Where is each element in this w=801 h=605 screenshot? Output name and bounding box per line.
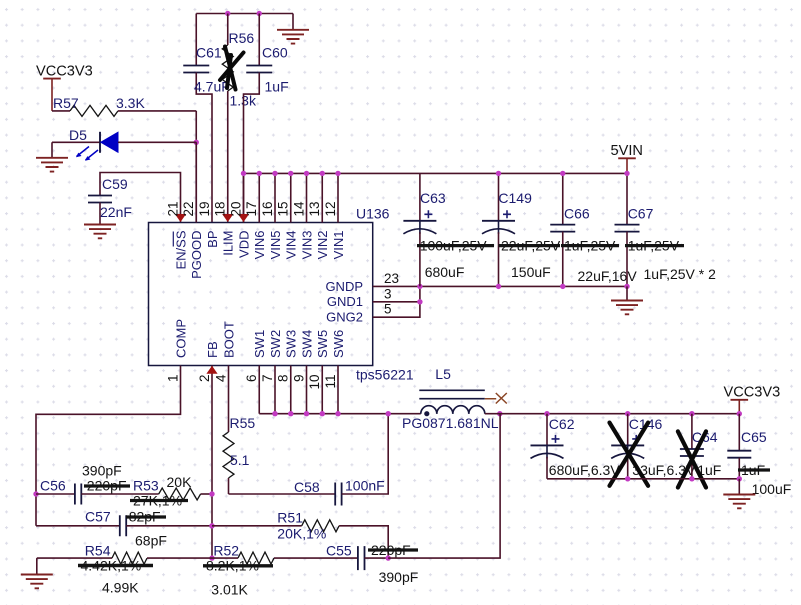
svg-text:20K: 20K xyxy=(167,474,193,490)
power symbol VCC3V3 (output) xyxy=(724,385,781,414)
wire D5 cathode to ground xyxy=(51,142,53,158)
svg-text:VIN1: VIN1 xyxy=(331,231,346,260)
strikethrough on C63 old value xyxy=(417,244,494,247)
strikethrough on C67 old value xyxy=(625,244,684,247)
svg-text:3.3K: 3.3K xyxy=(116,95,145,111)
svg-text:C58: C58 xyxy=(294,479,320,495)
svg-text:C60: C60 xyxy=(262,45,288,61)
junction C60 top xyxy=(257,11,262,16)
pin numbers right side xyxy=(384,271,399,317)
svg-text:R54: R54 xyxy=(85,543,111,559)
svg-text:22nF: 22nF xyxy=(100,204,132,220)
svg-text:19: 19 xyxy=(197,201,212,216)
junction GNDP/C63 bottom xyxy=(417,284,422,289)
ground under C67 xyxy=(611,301,643,315)
cross-out X over C64 xyxy=(678,431,706,487)
cross-out X over R56 xyxy=(220,47,244,90)
svg-text:15: 15 xyxy=(276,201,291,216)
svg-text:C56: C56 xyxy=(40,478,66,494)
svg-text:R57: R57 xyxy=(53,95,79,111)
svg-text:SW1: SW1 xyxy=(252,330,267,358)
wire BOOT pin to R55 xyxy=(228,366,230,433)
capacitor C64 xyxy=(680,414,721,479)
capacitor C58 xyxy=(229,414,389,506)
junction C146 top xyxy=(625,411,630,416)
ground under D5 xyxy=(36,158,68,172)
svg-text:3: 3 xyxy=(384,286,392,301)
capacitor C62 xyxy=(531,414,621,479)
junction C58/SW bus xyxy=(386,411,391,416)
svg-text:5: 5 xyxy=(384,302,392,317)
junction GND1 bus xyxy=(417,299,422,304)
svg-text:22uF,16V: 22uF,16V xyxy=(578,268,638,284)
capacitor C60 xyxy=(244,14,289,223)
junction SW5 bus xyxy=(320,411,325,416)
junction C67 top / 5VIN xyxy=(624,171,629,176)
svg-text:FB: FB xyxy=(205,341,220,358)
svg-text:VIN4: VIN4 xyxy=(284,231,299,260)
strikethrough on C56 old value xyxy=(84,484,130,487)
ground under C59 xyxy=(84,225,116,239)
svg-text:22: 22 xyxy=(181,201,196,216)
junction SW2 bus xyxy=(272,411,277,416)
junction C146 bottom xyxy=(625,476,630,481)
svg-text:SW5: SW5 xyxy=(315,330,330,358)
svg-text:C55: C55 xyxy=(326,543,352,559)
strikethrough on C66 old value xyxy=(561,244,619,247)
input arrow pin 21 EN/SS xyxy=(175,214,186,222)
capacitor C61 xyxy=(183,14,230,223)
pin names right side xyxy=(325,279,363,325)
svg-text:13: 13 xyxy=(307,201,322,216)
wire FB column xyxy=(211,366,213,559)
svg-text:C59: C59 xyxy=(102,176,128,192)
junction C62 top xyxy=(544,411,549,416)
svg-text:23: 23 xyxy=(384,271,399,286)
svg-text:COMP: COMP xyxy=(173,319,188,358)
output rail wire to VCC3V3 xyxy=(485,413,740,415)
svg-text:150uF: 150uF xyxy=(511,264,551,280)
capacitor C57 xyxy=(36,509,212,549)
capacitor C66 xyxy=(550,173,637,286)
svg-text:R52: R52 xyxy=(213,543,239,559)
junction C149 bottom xyxy=(496,284,501,289)
capacitor C149 xyxy=(482,173,561,286)
ground under R54 xyxy=(21,575,53,589)
capacitor C55 xyxy=(326,542,418,585)
input arrow pin 20 VDD xyxy=(238,214,249,222)
wire C67 bottom to ground xyxy=(626,286,628,300)
junction C55/output tap xyxy=(386,555,391,560)
ground under C65 xyxy=(723,495,755,509)
wire pin 22 PGOOD xyxy=(195,142,197,222)
resistor R57 xyxy=(52,95,196,116)
inductor polarity dot xyxy=(424,411,429,416)
svg-text:R56: R56 xyxy=(229,30,255,46)
junction L5 output node xyxy=(497,411,502,416)
svg-text:C66: C66 xyxy=(564,206,590,222)
pin GNG2 stub xyxy=(373,286,420,317)
junction VIN5 rail xyxy=(272,171,277,176)
svg-text:C149: C149 xyxy=(498,190,532,206)
svg-text:L5: L5 xyxy=(435,366,451,382)
pin GND1 stub xyxy=(373,301,420,303)
svg-text:5.1: 5.1 xyxy=(230,452,250,468)
strikethrough on R54 old value xyxy=(78,564,153,567)
junction COMP/C56 branch xyxy=(33,491,38,496)
svg-text:1uF,25V * 2: 1uF,25V * 2 xyxy=(644,266,717,282)
junction VIN6 rail xyxy=(257,171,262,176)
svg-text:C62: C62 xyxy=(549,416,575,432)
svg-text:U136: U136 xyxy=(356,206,390,222)
svg-text:BP: BP xyxy=(205,231,220,248)
svg-text:14: 14 xyxy=(291,201,306,217)
junction C67 bottom xyxy=(624,284,629,289)
cross mark right of L5 xyxy=(485,393,507,404)
wire pins VIN1-VIN6 and VDD to 5VIN rail xyxy=(244,173,339,222)
svg-text:SW4: SW4 xyxy=(299,330,314,358)
svg-text:C65: C65 xyxy=(741,429,767,445)
svg-text:4.99K: 4.99K xyxy=(102,580,139,596)
cross-out X over C146 xyxy=(610,423,649,486)
svg-text:R51: R51 xyxy=(277,510,303,526)
capacitor C63 xyxy=(403,173,487,286)
svg-text:SW3: SW3 xyxy=(284,330,299,358)
svg-text:68pF: 68pF xyxy=(135,533,167,549)
svg-text:1uF: 1uF xyxy=(265,79,289,95)
svg-text:12: 12 xyxy=(323,201,338,216)
svg-text:4: 4 xyxy=(213,374,228,382)
junction C65 bottom xyxy=(737,476,742,481)
junction C64 bottom xyxy=(689,476,694,481)
junction SW6 bus xyxy=(335,411,340,416)
resistor R53 xyxy=(133,474,212,509)
wire R57 output down to PGOOD pin xyxy=(195,111,197,223)
svg-text:9: 9 xyxy=(291,375,306,383)
svg-text:2: 2 xyxy=(197,375,212,383)
svg-text:PGOOD: PGOOD xyxy=(189,231,204,279)
svg-text:BOOT: BOOT xyxy=(221,321,236,358)
power symbol VCC3V3 (top-left) xyxy=(36,64,93,111)
junction VIN2 rail xyxy=(320,171,325,176)
input arrow pin 18 ILIM xyxy=(222,214,233,222)
strikethrough on C149 old value xyxy=(499,244,561,247)
junction VIN3 rail xyxy=(304,171,309,176)
junction C64 top xyxy=(689,411,694,416)
junction C66 top xyxy=(560,171,565,176)
svg-text:16: 16 xyxy=(260,201,275,216)
wire SW pins to SW bus xyxy=(259,366,338,414)
svg-text:390pF: 390pF xyxy=(82,463,122,479)
strikethrough on C57 old value xyxy=(126,515,166,518)
pin numbers bottom row xyxy=(165,374,337,390)
svg-text:VIN5: VIN5 xyxy=(268,231,283,260)
svg-text:PG0871.681NL: PG0871.681NL xyxy=(402,415,499,431)
capacitor C67 xyxy=(615,173,717,286)
LED emission arrows xyxy=(76,147,98,161)
svg-text:5VIN: 5VIN xyxy=(611,143,643,159)
svg-text:1: 1 xyxy=(165,375,180,383)
svg-text:D5: D5 xyxy=(69,127,87,143)
svg-text:VDD: VDD xyxy=(236,231,251,258)
junction VIN4 rail xyxy=(288,171,293,176)
capacitor C59 xyxy=(88,176,132,225)
resistor R54 xyxy=(37,543,212,596)
junction FB/R54/R52 xyxy=(209,555,214,560)
svg-text:3.01K: 3.01K xyxy=(211,582,248,598)
strikethrough on R53 old value xyxy=(130,499,188,502)
junction PGOOD node xyxy=(194,140,199,145)
capacitor C146 xyxy=(611,414,696,479)
svg-text:C67: C67 xyxy=(628,206,654,222)
wire top rail net (C61/R56/C60 to ground) xyxy=(196,14,293,30)
svg-text:VIN6: VIN6 xyxy=(252,231,267,260)
svg-text:tps56221: tps56221 xyxy=(356,367,414,383)
pin names bottom row xyxy=(173,319,345,358)
svg-text:GNG2: GNG2 xyxy=(326,310,363,325)
svg-text:17: 17 xyxy=(244,201,259,216)
svg-text:R53: R53 xyxy=(133,478,159,494)
junction C149 top xyxy=(496,171,501,176)
resistor R55 xyxy=(223,415,255,494)
junction VDD rail xyxy=(241,171,246,176)
svg-text:20K,1%: 20K,1% xyxy=(277,526,326,542)
svg-text:20: 20 xyxy=(228,201,243,216)
svg-text:C61: C61 xyxy=(196,45,222,61)
svg-text:VIN2: VIN2 xyxy=(315,231,330,260)
resistor R51 xyxy=(212,510,388,559)
wire COMP pin down-left xyxy=(36,366,181,526)
junction C65 top / VCC3V3 xyxy=(737,411,742,416)
svg-text:R55: R55 xyxy=(230,415,256,431)
5VIN rail wire xyxy=(244,172,628,174)
wire EN/SS net to C59 xyxy=(100,173,181,223)
svg-text:11: 11 xyxy=(323,375,338,389)
svg-text:390pF: 390pF xyxy=(379,569,419,585)
pin names top row xyxy=(173,230,345,279)
resistor R52 xyxy=(206,543,358,598)
op-amp U136 (tps56221 regulator body) xyxy=(149,206,414,383)
svg-text:GNDP: GNDP xyxy=(325,279,363,294)
svg-text:680uF,6.3V: 680uF,6.3V xyxy=(549,462,620,478)
junction VIN1 rail xyxy=(335,171,340,176)
svg-text:7: 7 xyxy=(260,375,275,383)
svg-text:GND1: GND1 xyxy=(327,294,363,309)
svg-text:SW2: SW2 xyxy=(268,330,283,358)
diode D5 (LED) xyxy=(52,127,196,153)
svg-text:21: 21 xyxy=(165,201,180,216)
svg-text:ILIM: ILIM xyxy=(221,231,236,256)
output gnd rail wire xyxy=(547,478,739,480)
junction SW3 bus xyxy=(288,411,293,416)
svg-text:18: 18 xyxy=(213,201,228,216)
svg-text:SW6: SW6 xyxy=(331,330,346,358)
junction R56 top xyxy=(225,11,230,16)
strikethrough on C55 old value xyxy=(368,548,418,551)
svg-text:C57: C57 xyxy=(85,509,111,525)
svg-text:VIN3: VIN3 xyxy=(299,231,314,260)
svg-text:VCC3V3: VCC3V3 xyxy=(724,385,781,401)
svg-text:EN/SS: EN/SS xyxy=(173,230,188,269)
capacitor C56 xyxy=(36,463,159,505)
wire output feedback tap xyxy=(388,414,500,558)
junction SW4 bus xyxy=(304,411,309,416)
inductor L5 xyxy=(402,366,499,431)
resistor R56 xyxy=(222,14,257,223)
svg-text:680uF: 680uF xyxy=(425,264,465,280)
junction C66 bottom xyxy=(560,284,565,289)
junction FB/R53 xyxy=(209,491,214,496)
junction FB/C57 xyxy=(209,523,214,528)
svg-text:8: 8 xyxy=(276,375,291,383)
svg-text:100uF: 100uF xyxy=(752,481,792,497)
strikethrough on C65 old value xyxy=(738,468,770,471)
power symbol 5VIN xyxy=(611,143,643,173)
ground top-right of rail xyxy=(277,30,309,44)
pin GNDP stub and gnd rail wire xyxy=(373,285,627,287)
svg-text:VCC3V3: VCC3V3 xyxy=(36,64,93,80)
svg-text:10: 10 xyxy=(307,375,322,390)
input arrow pin 2 FB xyxy=(206,366,217,374)
pin numbers top row xyxy=(165,201,337,217)
svg-text:C63: C63 xyxy=(420,190,446,206)
svg-text:6: 6 xyxy=(244,375,259,383)
wire C65 bottom to ground xyxy=(738,479,740,495)
svg-text:100nF: 100nF xyxy=(345,478,385,494)
SW bus wire xyxy=(259,413,421,415)
capacitor C65 xyxy=(727,414,791,497)
strikethrough on R52 old value xyxy=(203,564,273,567)
